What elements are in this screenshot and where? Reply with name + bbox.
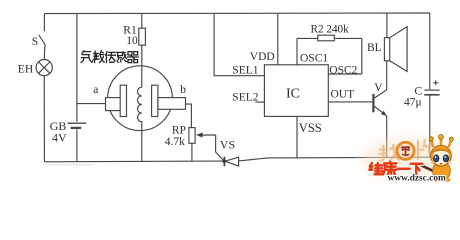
- wire sensor bottom to rail: [141, 122, 143, 162]
- svg-text:47μ: 47μ: [404, 97, 422, 109]
- wire R2 link: [297, 37, 362, 39]
- svg-text:4V: 4V: [52, 130, 67, 144]
- thyristor VS: [224, 157, 238, 167]
- gas sensor right electrode: [152, 85, 186, 116]
- svg-text:RP: RP: [172, 125, 186, 137]
- potentiometer RP: [189, 128, 195, 144]
- speaker BL: [384, 13, 407, 71]
- RP wiper arrowhead: [196, 133, 203, 138]
- svg-text:VDD: VDD: [250, 51, 275, 63]
- wire R1 to sensor: [141, 45, 143, 87]
- watermark weiku red text: [369, 162, 422, 175]
- wire left rail upper: [43, 14, 45, 32]
- svg-text:www.dzsc.com: www.dzsc.com: [388, 173, 447, 183]
- wire scan ghost under bottom-left corner: [46, 164, 93, 166]
- wire SEL1 feed: [214, 13, 264, 75]
- wire battery branch upper: [76, 14, 78, 122]
- wire VSS pin: [296, 116, 298, 157]
- wire VDD pin: [277, 13, 279, 65]
- wire OUT pin: [328, 101, 373, 103]
- svg-text:VS: VS: [220, 138, 235, 152]
- wire bottom rail left: [44, 160, 224, 163]
- transistor emitter arrowhead: [381, 111, 387, 116]
- wire OSC1 pin: [296, 38, 298, 64]
- switch S: [39, 35, 46, 46]
- svg-text:10: 10: [126, 35, 138, 47]
- wire SEL2 stub: [255, 101, 264, 103]
- svg-text:b: b: [180, 84, 186, 96]
- resistor R2: [318, 35, 335, 41]
- wire OSC2 pin: [328, 38, 362, 74]
- label gas sensor chinese: [81, 51, 138, 63]
- svg-text:IC: IC: [286, 87, 300, 102]
- watermark find-image pale glyphs: [380, 140, 430, 160]
- wire lamp to bottom rail: [43, 76, 45, 162]
- wire switch to lamp: [43, 45, 46, 59]
- svg-text:R2 240k: R2 240k: [311, 23, 350, 35]
- svg-text:4.7k: 4.7k: [165, 136, 185, 148]
- svg-text:V: V: [374, 82, 383, 94]
- svg-text:EH: EH: [18, 64, 33, 76]
- svg-text:OUT: OUT: [331, 89, 355, 101]
- wire bottom rail right: [239, 157, 430, 161]
- wire RP wiper to VS gate: [201, 135, 224, 161]
- svg-text:OSC2: OSC2: [329, 64, 357, 76]
- battery GB: [68, 123, 87, 128]
- svg-text:SEL1: SEL1: [232, 64, 258, 76]
- node VS gate junction: [222, 159, 226, 163]
- wire battery to bottom rail: [76, 129, 78, 162]
- lamp EH: [36, 60, 52, 76]
- svg-text:a: a: [93, 84, 98, 96]
- wire node a lead: [77, 103, 106, 105]
- svg-text:VSS: VSS: [299, 121, 322, 135]
- svg-text:C: C: [414, 83, 422, 97]
- wire node b lead to RP: [186, 104, 192, 128]
- capacitor C: [424, 80, 439, 95]
- watermark badge logo: [397, 142, 414, 159]
- svg-text:S: S: [32, 36, 38, 48]
- gas sensor envelope circle: [108, 66, 173, 131]
- wire right rail upper: [429, 13, 431, 89]
- gas sensor heater coil: [138, 87, 142, 121]
- wire top rail: [44, 12, 429, 15]
- gas sensor left electrode: [106, 85, 127, 116]
- transistor V: [373, 61, 386, 158]
- svg-text:OSC1: OSC1: [300, 53, 328, 65]
- wire R1 branch top: [141, 13, 143, 28]
- wire RP to bottom rail: [191, 143, 193, 161]
- resistor R1: [139, 28, 146, 45]
- wire right rail lower: [429, 95, 431, 157]
- svg-text:SEL2: SEL2: [232, 92, 258, 104]
- op-amp U1 IC box: [264, 65, 328, 117]
- svg-text:BL: BL: [367, 42, 382, 54]
- watermark mascot: [417, 135, 453, 183]
